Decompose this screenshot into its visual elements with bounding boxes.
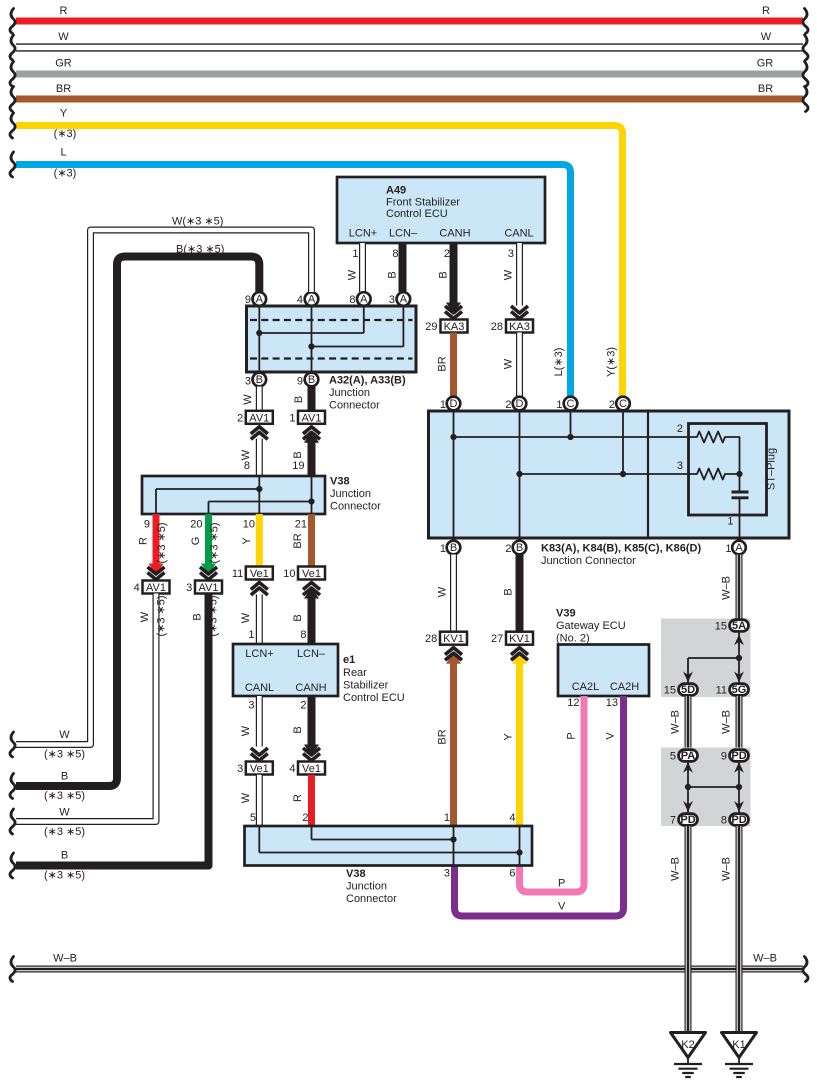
svg-text:W: W <box>59 729 70 741</box>
connector 3 Ve1 <box>237 762 273 776</box>
wire B e1 CANH pin 2 shielded <box>292 696 320 761</box>
svg-text:A: A <box>400 293 408 305</box>
svg-text:Stabilizer: Stabilizer <box>343 680 389 692</box>
svg-text:B: B <box>292 614 304 621</box>
svg-text:Junction Connector: Junction Connector <box>541 555 636 567</box>
svg-text:21: 21 <box>295 519 307 531</box>
svg-text:W–B: W–B <box>721 857 733 881</box>
svg-text:9: 9 <box>144 519 150 531</box>
svg-text:W: W <box>240 725 252 736</box>
svg-text:B: B <box>292 451 304 458</box>
joint 5 PA <box>670 750 698 763</box>
connector 27 KV1 <box>491 632 533 646</box>
pin 1B of K83 <box>440 541 460 555</box>
connector 10 Ve1 <box>283 567 325 581</box>
svg-text:B: B <box>192 613 204 620</box>
svg-text:3: 3 <box>245 376 251 388</box>
junction connector V38 upper <box>142 476 381 515</box>
svg-text:29: 29 <box>425 321 437 333</box>
connector 28 KV1 <box>425 632 467 646</box>
svg-text:B: B <box>292 726 304 733</box>
svg-text:4: 4 <box>134 582 140 594</box>
wire B A49 CANH pin 2 shielded <box>438 243 463 319</box>
svg-text:B: B <box>450 542 457 554</box>
svg-text:W–B: W–B <box>53 953 77 965</box>
svg-text:15: 15 <box>715 621 727 633</box>
svg-text:GR: GR <box>757 58 774 70</box>
svg-text:B: B <box>516 542 523 554</box>
svg-text:B: B <box>61 771 68 783</box>
svg-text:Junction: Junction <box>346 881 387 893</box>
svg-text:R: R <box>138 537 150 545</box>
ground K2 <box>671 1033 706 1078</box>
wire R bus <box>10 5 808 34</box>
svg-text:V38: V38 <box>346 868 366 880</box>
pin 9B of A32 <box>297 373 318 388</box>
ST-Plug terminating resistor block <box>677 423 778 541</box>
wire R 4 Ve1 to V38 pin 2 <box>292 775 312 826</box>
wire W 11 Ve1 to e1 LCN+ pin 1 <box>240 583 268 645</box>
ECU e1 Rear Stabilizer Control ECU <box>233 644 405 704</box>
pin 2C of K83 <box>609 397 630 411</box>
pin 3B of A32 <box>245 373 266 388</box>
svg-text:W: W <box>240 449 252 460</box>
svg-text:1: 1 <box>725 543 731 555</box>
wire B A49 LCN- pin 8 to A32 pin 3A <box>387 243 403 292</box>
svg-text:3: 3 <box>237 763 243 775</box>
svg-text:P: P <box>566 732 578 739</box>
wire W KA3 to K83 pin 2D <box>503 333 520 397</box>
svg-text:B: B <box>438 271 450 278</box>
svg-text:AV1: AV1 <box>146 582 166 594</box>
svg-text:9: 9 <box>297 376 303 388</box>
svg-text:A: A <box>308 293 316 305</box>
svg-text:A: A <box>360 293 368 305</box>
svg-text:A49: A49 <box>386 185 406 197</box>
svg-text:W–B: W–B <box>670 710 682 734</box>
wire B 10 Ve1 to e1 LCN- pin 8 <box>292 583 320 645</box>
svg-text:(∗3): (∗3) <box>54 128 77 140</box>
pin 1C of K83 <box>556 397 577 411</box>
svg-text:W: W <box>437 586 449 597</box>
wire W(*3 *5) 4 AV1 to left stub <box>10 594 168 839</box>
svg-text:e1: e1 <box>343 654 355 666</box>
svg-text:8: 8 <box>721 815 727 827</box>
svg-text:1: 1 <box>440 543 446 555</box>
svg-text:BR: BR <box>56 83 71 95</box>
relay block gray upper <box>661 619 751 698</box>
wire R V38 pin 9 to 4 AV1 <box>138 514 169 580</box>
svg-text:W: W <box>58 31 69 43</box>
svg-text:3: 3 <box>389 294 395 306</box>
wire B(*3 *5) 3 AV1 to left stub <box>10 594 220 882</box>
svg-text:3: 3 <box>444 868 450 880</box>
wire Y 27 KV1 to V38 pin 4 <box>503 648 529 826</box>
svg-text:20: 20 <box>190 519 202 531</box>
svg-text:1: 1 <box>352 248 358 260</box>
wire W-B vertical over bus K2 <box>685 950 692 1033</box>
svg-text:8: 8 <box>244 460 250 472</box>
svg-text:Front Stabilizer: Front Stabilizer <box>386 197 460 209</box>
ground K1 <box>722 1033 757 1078</box>
svg-text:CANL: CANL <box>245 682 274 694</box>
svg-text:V39: V39 <box>556 608 576 620</box>
svg-text:W–B: W–B <box>721 576 733 600</box>
svg-text:Connector: Connector <box>330 501 381 513</box>
svg-text:Ve1: Ve1 <box>302 763 321 775</box>
svg-text:15: 15 <box>664 685 676 697</box>
svg-text:K83(A), K84(B), K85(C), K86(D): K83(A), K84(B), K85(C), K86(D) <box>541 543 701 555</box>
junction connector A32(A) A33(B) <box>247 306 417 412</box>
svg-text:W: W <box>761 31 772 43</box>
svg-text:KA3: KA3 <box>444 321 465 333</box>
wire W-B vertical over bus K1 <box>736 950 743 1033</box>
svg-text:A: A <box>256 293 264 305</box>
pin 2D of K83 <box>505 397 526 411</box>
joint 8 PD <box>721 814 749 827</box>
svg-text:2: 2 <box>677 423 683 435</box>
wire W A49 CANL pin 3 shielded <box>503 243 529 319</box>
connector 29 KA3 <box>425 320 467 334</box>
svg-text:2: 2 <box>609 399 615 411</box>
svg-text:2: 2 <box>444 248 450 260</box>
junction connector V38 lower <box>245 826 533 905</box>
svg-text:B: B <box>503 588 515 595</box>
svg-text:(∗3 ∗5): (∗3 ∗5) <box>44 870 85 882</box>
svg-text:Y: Y <box>503 733 515 741</box>
wire B K83 pin 2B to 27 KV1 <box>503 555 520 632</box>
svg-text:CANH: CANH <box>439 228 470 240</box>
svg-text:3: 3 <box>508 248 514 260</box>
svg-text:(∗3 ∗5): (∗3 ∗5) <box>44 826 85 838</box>
joint 15 5A <box>715 620 749 633</box>
svg-text:A32(A), A33(B): A32(A), A33(B) <box>329 375 406 387</box>
svg-text:C: C <box>619 398 627 410</box>
svg-text:Control ECU: Control ECU <box>386 208 448 220</box>
wire B(*3 *5) left loop to A32 pin 9A <box>10 244 259 803</box>
svg-text:W(∗3 ∗5): W(∗3 ∗5) <box>172 216 223 228</box>
relay block gray lower <box>661 748 751 827</box>
svg-text:LCN+: LCN+ <box>245 648 273 660</box>
svg-text:4: 4 <box>509 812 515 824</box>
svg-text:W: W <box>503 269 515 280</box>
svg-text:CA2H: CA2H <box>610 681 639 693</box>
svg-text:B: B <box>256 374 263 386</box>
svg-text:9: 9 <box>721 751 727 763</box>
svg-text:5: 5 <box>250 812 256 824</box>
svg-text:K2: K2 <box>681 1039 694 1051</box>
svg-text:(∗3 ∗5): (∗3 ∗5) <box>44 749 85 761</box>
junction connector K83(A) K84(B) K85(C) K86(D) <box>429 410 790 568</box>
svg-text:R: R <box>292 794 304 802</box>
pin 8A of A32 <box>349 292 370 306</box>
svg-text:4: 4 <box>289 763 295 775</box>
joint 15 5D <box>664 684 698 697</box>
svg-text:Connector: Connector <box>346 893 397 905</box>
svg-text:C: C <box>567 398 575 410</box>
svg-text:R: R <box>762 5 770 17</box>
svg-text:B: B <box>387 271 399 278</box>
svg-text:BR: BR <box>292 533 304 548</box>
svg-text:(∗3 ∗5): (∗3 ∗5) <box>208 595 220 636</box>
svg-text:CANH: CANH <box>295 682 326 694</box>
svg-text:(∗3 ∗5): (∗3 ∗5) <box>209 522 221 563</box>
wire W bus <box>10 31 808 60</box>
svg-text:6: 6 <box>509 868 515 880</box>
wire B 1 AV1 to V38 pin 19 <box>292 427 320 476</box>
wire W A49 LCN+ pin 1 to A32 pin 8A <box>347 243 363 292</box>
connector 3 AV1 <box>186 581 222 595</box>
svg-text:5D: 5D <box>681 684 695 696</box>
wire BR V38 pin 21 to 10 Ve1 <box>292 514 312 567</box>
pin 3A of A32 <box>389 292 410 306</box>
svg-text:AV1: AV1 <box>199 582 219 594</box>
wire GR bus <box>10 58 808 87</box>
svg-text:1: 1 <box>444 812 450 824</box>
svg-text:9: 9 <box>245 294 251 306</box>
wire W-B bottom bus <box>10 953 808 982</box>
svg-text:13: 13 <box>606 697 618 709</box>
svg-text:B: B <box>293 396 305 403</box>
svg-text:LCN+: LCN+ <box>349 228 377 240</box>
svg-text:PA: PA <box>681 750 696 762</box>
svg-text:8: 8 <box>392 248 398 260</box>
svg-text:W–B: W–B <box>721 710 733 734</box>
svg-text:10: 10 <box>243 519 255 531</box>
svg-text:D: D <box>516 398 524 410</box>
connector 1 AV1 <box>289 411 325 425</box>
svg-text:(∗3 ∗5): (∗3 ∗5) <box>156 595 168 636</box>
wire B A32 pin 9B to connector 1 AV1 <box>293 387 312 412</box>
svg-text:1: 1 <box>556 399 562 411</box>
svg-text:R: R <box>60 5 68 17</box>
svg-text:B: B <box>61 850 68 862</box>
connector 4 AV1 <box>134 581 170 595</box>
svg-text:8: 8 <box>300 629 306 641</box>
svg-text:(∗3): (∗3) <box>54 168 77 180</box>
wire W 2 AV1 to V38 pin 8 <box>240 427 268 476</box>
svg-text:W–B: W–B <box>753 953 777 965</box>
svg-text:Ve1: Ve1 <box>250 568 269 580</box>
svg-text:Ve1: Ve1 <box>250 763 269 775</box>
svg-text:V38: V38 <box>330 476 350 488</box>
svg-text:G: G <box>190 537 202 546</box>
svg-text:B: B <box>308 374 315 386</box>
svg-text:BR: BR <box>758 83 773 95</box>
svg-text:5A: 5A <box>732 620 746 632</box>
svg-text:7: 7 <box>670 815 676 827</box>
wire W K83 pin 1B to 28 KV1 <box>437 555 454 632</box>
svg-text:1: 1 <box>289 412 295 424</box>
svg-text:5: 5 <box>670 751 676 763</box>
svg-text:3: 3 <box>248 700 254 712</box>
svg-text:3: 3 <box>677 460 683 472</box>
svg-text:11: 11 <box>232 568 243 580</box>
wire BR bus <box>10 83 808 112</box>
svg-text:19: 19 <box>292 460 304 472</box>
svg-text:B(∗3 ∗5): B(∗3 ∗5) <box>176 244 224 256</box>
svg-text:8: 8 <box>349 294 355 306</box>
svg-text:11: 11 <box>716 685 727 697</box>
svg-text:PD: PD <box>680 814 695 826</box>
svg-text:W: W <box>59 807 70 819</box>
svg-text:Y: Y <box>60 108 68 120</box>
svg-text:1: 1 <box>727 516 733 528</box>
svg-text:W: W <box>240 792 252 803</box>
svg-text:2: 2 <box>505 399 511 411</box>
wire W-B 8 PD to ground K1 <box>721 826 740 1033</box>
svg-text:K1: K1 <box>732 1039 745 1051</box>
svg-text:PD: PD <box>731 750 746 762</box>
joint 9 PD <box>721 750 749 763</box>
svg-text:D: D <box>450 398 458 410</box>
pin 4A of A32 <box>297 292 318 306</box>
svg-text:CA2L: CA2L <box>572 681 600 693</box>
pin 1A of K83 <box>725 541 745 555</box>
connector 2 AV1 <box>237 411 273 425</box>
svg-text:LCN–: LCN– <box>297 648 326 660</box>
svg-text:Control ECU: Control ECU <box>343 692 405 704</box>
joint 11 5G <box>716 684 749 697</box>
svg-text:LCN–: LCN– <box>389 228 418 240</box>
wire G V38 pin 20 to 3 AV1 <box>190 514 221 580</box>
connector 28 KA3 <box>491 320 533 334</box>
wire W-B 7 PD to ground K2 <box>670 826 689 1033</box>
ECU V39 Gateway ECU No.2 <box>556 608 649 697</box>
svg-text:12: 12 <box>567 697 579 709</box>
joint 7 PD <box>670 814 698 827</box>
connector 4 Ve1 <box>289 762 325 776</box>
pin 9A of A32 <box>245 292 266 306</box>
svg-text:V: V <box>558 901 566 913</box>
svg-text:W: W <box>347 269 359 280</box>
svg-text:3: 3 <box>186 582 192 594</box>
wire L bus to K83 pin 1C <box>10 147 571 397</box>
svg-text:5G: 5G <box>732 684 747 696</box>
wire Y bus to K83 pin 2C <box>10 108 623 397</box>
svg-text:GR: GR <box>55 58 72 70</box>
svg-text:4: 4 <box>297 294 303 306</box>
svg-text:P: P <box>558 878 565 890</box>
svg-text:(No. 2): (No. 2) <box>556 633 590 645</box>
wire Y V38 pin 10 to 11 Ve1 <box>241 514 259 567</box>
svg-text:L(∗3): L(∗3) <box>553 348 565 377</box>
svg-text:28: 28 <box>425 633 437 645</box>
svg-text:Connector: Connector <box>329 400 380 412</box>
svg-text:AV1: AV1 <box>302 412 322 424</box>
svg-text:AV1: AV1 <box>249 412 269 424</box>
svg-text:Rear: Rear <box>343 667 367 679</box>
ECU A49 Front Stabilizer Control ECU <box>337 177 545 243</box>
svg-text:10: 10 <box>283 568 295 580</box>
wire W 3 Ve1 to V38 pin 5 <box>240 775 259 826</box>
svg-text:BR: BR <box>437 729 449 744</box>
wire W e1 CANL pin 3 shielded <box>240 696 268 761</box>
svg-text:2: 2 <box>300 700 306 712</box>
svg-text:PD: PD <box>731 814 746 826</box>
svg-text:Junction: Junction <box>330 488 371 500</box>
svg-text:2: 2 <box>237 412 243 424</box>
wire W-B 5G to PD <box>721 696 740 750</box>
wire V V39 CA2H pin 13 to V38 pin 3 <box>455 696 624 916</box>
svg-text:1: 1 <box>248 629 254 641</box>
wire P V39 CA2L pin 12 to V38 pin 6 <box>520 696 585 892</box>
svg-text:KA3: KA3 <box>509 321 530 333</box>
svg-text:27: 27 <box>491 633 503 645</box>
svg-text:1: 1 <box>440 399 446 411</box>
pin 2B of K83 <box>505 541 526 555</box>
svg-text:W: W <box>242 394 254 405</box>
pin 1D of K83 <box>440 397 460 411</box>
connector 11 Ve1 <box>232 567 273 581</box>
wire W-B K83 pin 1A to joint 5A <box>721 555 740 620</box>
svg-text:2: 2 <box>302 812 308 824</box>
svg-text:Y(∗3): Y(∗3) <box>606 347 618 377</box>
svg-text:BR: BR <box>437 356 449 371</box>
svg-text:2: 2 <box>505 543 511 555</box>
svg-text:(∗3 ∗5): (∗3 ∗5) <box>156 522 168 563</box>
svg-text:W: W <box>240 612 252 623</box>
svg-text:KV1: KV1 <box>509 633 530 645</box>
svg-text:Gateway ECU: Gateway ECU <box>556 620 626 632</box>
svg-text:Y: Y <box>241 537 253 545</box>
svg-text:KV1: KV1 <box>443 633 464 645</box>
svg-text:Ve1: Ve1 <box>302 568 321 580</box>
svg-text:CANL: CANL <box>504 228 533 240</box>
svg-text:28: 28 <box>491 321 503 333</box>
svg-text:ST–Plug: ST–Plug <box>766 448 778 490</box>
svg-text:W–B: W–B <box>670 857 682 881</box>
wire BR KA3 to K83 pin 1D <box>437 333 454 397</box>
wire W A32 pin 3B to connector 2 AV1 <box>242 387 259 412</box>
svg-text:L: L <box>60 147 66 159</box>
wire BR 28 KV1 to V38 pin 1 <box>437 648 463 826</box>
wire W-B 5D to PA <box>670 696 689 750</box>
svg-text:W: W <box>503 358 515 369</box>
svg-text:Junction: Junction <box>329 387 370 399</box>
svg-text:A: A <box>735 542 743 554</box>
svg-text:W: W <box>139 611 151 622</box>
svg-text:(∗3 ∗5): (∗3 ∗5) <box>44 790 85 802</box>
wire W(*3 *5) left loop to A32 pin 4A <box>10 216 312 761</box>
svg-text:V: V <box>605 732 617 740</box>
